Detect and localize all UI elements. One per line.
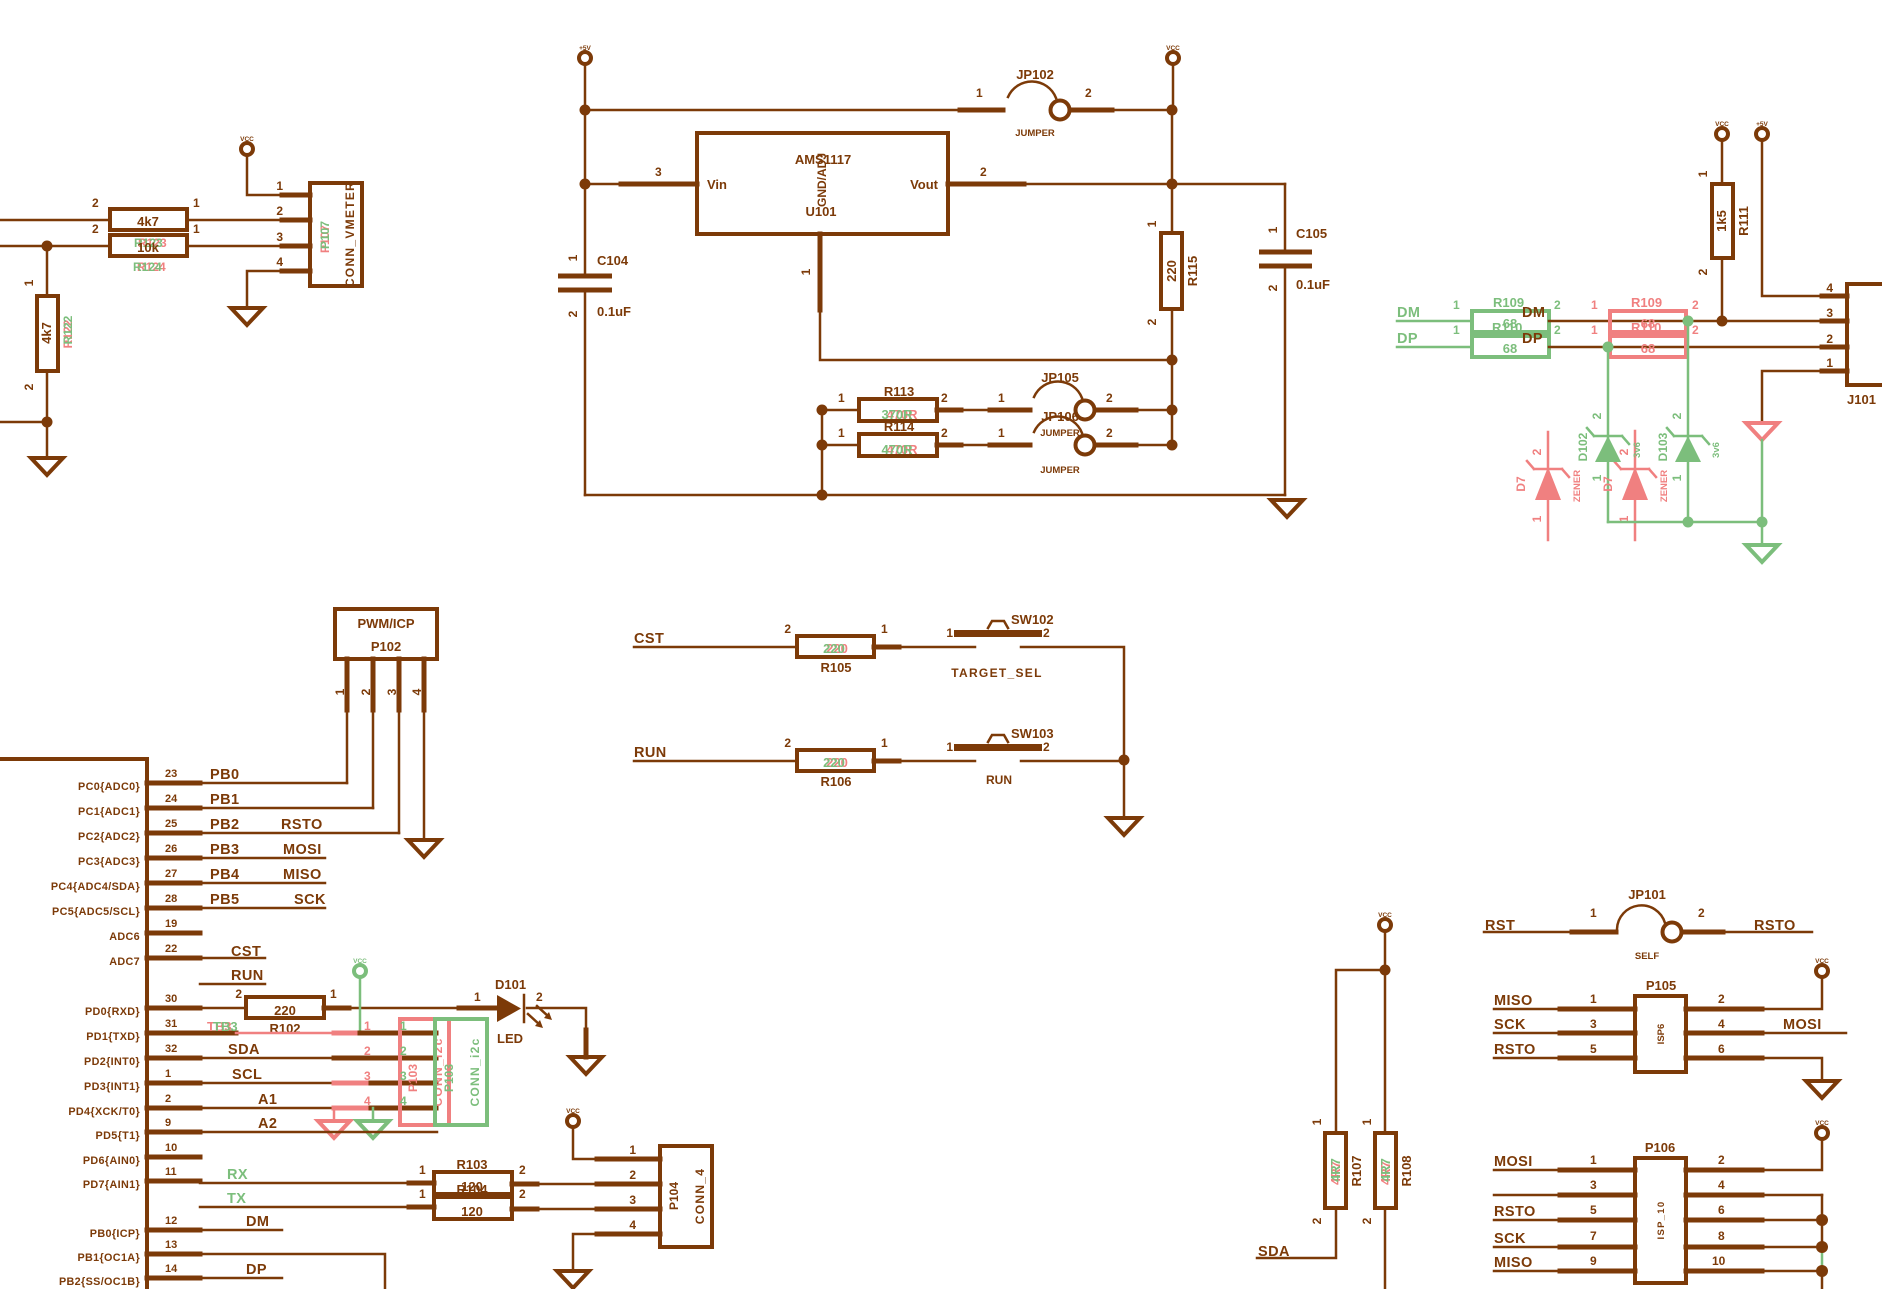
svg-text:7: 7 [1590,1229,1597,1243]
wire net to R123 from left [0,219,110,222]
zener diode D102 green [1576,412,1643,481]
jumper JP105 [998,370,1113,439]
ground symbol P107 [231,308,263,325]
svg-text:P102: P102 [371,639,401,654]
svg-text:P103: P103 [406,1064,420,1092]
wire DM to J101 pin3 [1549,320,1847,323]
svg-text:2: 2 [276,204,283,218]
svg-text:RSTO: RSTO [1494,1204,1536,1220]
wire pin13 down [200,1254,385,1289]
svg-text:ADC6: ADC6 [109,931,140,943]
svg-text:ZENER: ZENER [1659,470,1670,502]
junction pin6 [1816,1214,1828,1226]
svg-text:1: 1 [566,254,580,261]
svg-text:R122: R122 [61,315,75,344]
svg-text:2: 2 [1696,268,1710,275]
resistor R115 220 vertical [1145,184,1200,445]
wire P107 pin4 to ground [282,269,310,274]
svg-text:DM: DM [1522,305,1545,321]
wire VCC down [1384,931,1387,1133]
connector P103 pink CONN_i2c [364,1019,449,1125]
green junction on DM [1683,316,1694,327]
svg-text:MISO: MISO [1494,1255,1533,1271]
svg-text:PC2{ADC2}: PC2{ADC2} [78,831,140,843]
junction pin8 [1816,1241,1828,1253]
svg-text:LED: LED [497,1031,523,1046]
junction R107 top [1380,965,1391,976]
pin 28 stub [147,906,200,911]
svg-text:2: 2 [1718,1153,1725,1167]
svg-text:3: 3 [655,165,662,179]
wire R113 to JP105 [937,409,1030,412]
svg-text:11: 11 [165,1166,177,1178]
svg-text:1: 1 [1590,992,1597,1006]
wire from left to gnd junction [0,421,47,424]
svg-text:0.1uF: 0.1uF [597,304,631,319]
svg-text:D102: D102 [1576,432,1590,461]
svg-text:CONN_4: CONN_4 [693,1168,707,1224]
wire R114 to JP106 [937,444,1030,447]
svg-text:PC4{ADC4/SDA}: PC4{ADC4/SDA} [51,881,141,893]
junction JP106 right [1167,440,1178,451]
svg-text:5: 5 [1590,1203,1597,1217]
svg-text:120: 120 [461,1204,483,1219]
ground symbol switches [1108,818,1140,835]
wire SW102 to junction [1021,647,1124,760]
svg-text:SCK: SCK [1494,1231,1526,1247]
green wire gnd extension [1761,440,1764,522]
svg-text:2: 2 [784,622,791,636]
pin 30 stub [147,1006,200,1011]
green junction right [1757,517,1768,528]
svg-text:1: 1 [193,222,200,236]
svg-text:4: 4 [1826,281,1833,295]
svg-text:PWM/ICP: PWM/ICP [357,616,414,631]
svg-text:1: 1 [419,1187,426,1201]
power VCC symbol P105 [1815,958,1829,977]
capacitor C104 [558,184,631,495]
svg-text:25: 25 [165,818,177,830]
svg-text:DP: DP [1522,331,1543,347]
svg-text:PD2{INT0}: PD2{INT0} [84,1056,140,1068]
pin 25 stub [147,831,200,836]
pin 10 stub [147,1155,200,1160]
wire pink stub pin1 old conn [334,1031,399,1036]
green junction on DP [1603,342,1614,353]
jumper JP102 [976,67,1092,139]
svg-text:R104: R104 [456,1182,488,1197]
power VCC symbol R111 [1715,121,1729,140]
wire R111 to DM line [1721,258,1724,321]
svg-text:4: 4 [1718,1017,1725,1031]
wire Vout to right [948,183,1285,186]
right column green segment [1821,1247,1824,1271]
svg-text:3: 3 [1590,1017,1597,1031]
svg-text:2: 2 [364,1044,371,1058]
svg-text:PD6{AIN0}: PD6{AIN0} [83,1155,141,1167]
wire SDA to R107 [1257,1208,1336,1258]
ground symbol pink old [1746,423,1778,440]
resistor R110 pink [1591,320,1699,357]
IC U100 microcontroller box [0,759,147,1289]
green wire to ground [1761,522,1764,545]
svg-text:27: 27 [165,868,177,880]
svg-text:470R: 470R [881,442,913,457]
wire P102 pin2 drop [372,659,375,808]
power VCC symbol P104 [566,1108,580,1127]
wire P106 pin3 [1494,1194,1635,1197]
svg-text:R109: R109 [1493,295,1524,310]
svg-text:2: 2 [165,1093,171,1105]
svg-text:R124: R124 [133,260,162,274]
svg-text:MOSI: MOSI [1494,1154,1533,1170]
svg-text:SW102: SW102 [1011,612,1054,627]
svg-text:ISP6: ISP6 [1656,1024,1667,1045]
svg-text:R113: R113 [884,384,914,399]
svg-text:1: 1 [881,622,888,636]
green wire VCC down [359,977,362,1033]
svg-text:MISO: MISO [283,867,322,883]
voltage regulator U101 AMS1117 [655,133,987,275]
svg-text:2: 2 [941,391,948,405]
common wire overlap pin1 [360,1031,436,1036]
svg-text:2: 2 [1145,318,1159,325]
pin 1 stub [147,1081,200,1086]
wire VCC to P104 pin1 [573,1127,660,1159]
wire left column down to gnd rail [821,410,824,495]
svg-text:SELF: SELF [1635,951,1659,962]
wire R104 to P104 pin3 [512,1208,597,1211]
svg-text:14: 14 [165,1263,178,1275]
svg-text:2: 2 [92,222,99,236]
junction JP102/VCC [1167,105,1178,116]
svg-text:10: 10 [165,1142,177,1154]
svg-text:A1: A1 [258,1092,277,1108]
svg-text:2: 2 [22,383,36,390]
svg-text:PB2{SS/OC1B}: PB2{SS/OC1B} [59,1276,140,1288]
wire JP102 pin2 to VCC line [1070,109,1172,112]
svg-text:R103: R103 [456,1157,487,1172]
svg-text:PD7{AIN1}: PD7{AIN1} [83,1179,141,1191]
svg-text:DM: DM [1397,305,1420,321]
svg-text:1: 1 [838,426,845,440]
P104 pin4 stub and gnd [597,1232,660,1237]
wire LED to gnd [527,1008,586,1057]
wire VCC to R111 [1721,140,1724,184]
svg-text:4: 4 [364,1094,371,1108]
wire R108 bottom [1384,1208,1387,1289]
svg-text:PB5: PB5 [210,892,239,908]
svg-text:220: 220 [823,641,845,656]
resistor R114 [822,419,948,457]
power VCC symbol output [1166,45,1180,64]
svg-text:2: 2 [519,1187,526,1201]
svg-text:MISO: MISO [1494,993,1533,1009]
svg-text:26: 26 [165,843,177,855]
connector P105 ISP6 [1590,978,1725,1072]
svg-text:1: 1 [1310,1118,1324,1125]
svg-text:2: 2 [1554,298,1561,312]
pin 9 stub [147,1130,200,1135]
svg-text:2: 2 [1360,1217,1374,1224]
wire P105 pin6 to gnd [1686,1058,1822,1081]
junction JP105 row left [817,405,828,416]
svg-text:ADC7: ADC7 [109,956,140,968]
resistor R113 [822,384,948,422]
zener diode D7 pink old left [1514,432,1583,540]
svg-text:6: 6 [1718,1042,1725,1056]
svg-text:4k7: 4k7 [137,214,159,229]
svg-text:RSTO: RSTO [1494,1042,1536,1058]
jumper JP106 [998,409,1113,476]
wire VCC down to R115 [1172,64,1173,184]
svg-text:SDA: SDA [228,1042,260,1058]
svg-text:2: 2 [1692,298,1699,312]
junction at Vin row [580,179,591,190]
svg-text:9: 9 [165,1117,171,1129]
svg-text:3: 3 [629,1193,636,1207]
svg-text:PD0{RXD}: PD0{RXD} [85,1006,140,1018]
LED D101 [474,977,552,1046]
svg-text:4: 4 [276,255,283,269]
svg-text:4: 4 [400,1094,407,1108]
svg-text:P107: P107 [318,221,332,249]
junction ADJ line [1167,355,1178,366]
svg-text:1: 1 [1826,356,1833,370]
svg-text:JUMPER: JUMPER [1040,465,1080,476]
power +5V symbol input [579,45,592,64]
svg-text:1: 1 [1266,226,1280,233]
wire P102 pin1 drop [346,659,349,783]
svg-text:2: 2 [1106,391,1113,405]
svg-text:28: 28 [165,893,177,905]
svg-text:PB4: PB4 [210,867,239,883]
svg-text:PB1: PB1 [210,792,239,808]
wire P106 pin10 [1686,1270,1822,1273]
pin 31 stub [147,1031,236,1036]
wire SW103 to junction [1021,760,1124,763]
svg-text:2: 2 [629,1168,636,1182]
svg-text:220: 220 [823,755,845,770]
svg-text:R106: R106 [820,774,851,789]
power VCC symbol P107 [240,136,254,155]
connector P106 ISP_10 [1590,1140,1726,1283]
svg-text:5: 5 [1590,1042,1597,1056]
ground symbol pink i2c [318,1121,350,1138]
resistor R109 green [1453,295,1561,332]
P104 pin3 stub [597,1207,660,1212]
svg-text:1: 1 [1590,906,1597,920]
svg-text:1: 1 [276,179,283,193]
ground symbol LED [570,1057,602,1074]
svg-text:2: 2 [566,310,580,317]
svg-text:2: 2 [1617,448,1631,455]
connector P103 green CONN_i2c [400,1019,487,1125]
wire green DP [1397,346,1472,349]
wire junction to gnd [1123,760,1126,818]
svg-text:2: 2 [1310,1217,1324,1224]
wire R105 to SW102 [874,646,975,649]
svg-text:2: 2 [1554,323,1561,337]
svg-text:Vin: Vin [707,177,727,192]
svg-text:PC0{ADC0}: PC0{ADC0} [78,781,140,793]
resistor R109 pink [1591,295,1699,332]
junction pin10 [1816,1265,1828,1277]
svg-text:TB3: TB3 [213,1019,238,1034]
resistor R102 220 [235,987,337,1036]
svg-text:1: 1 [946,740,953,754]
svg-text:4k7: 4k7 [39,322,54,344]
svg-text:PB0: PB0 [210,767,239,783]
wire P106 pin2 to VCC [1686,1139,1822,1170]
svg-text:1: 1 [1696,170,1710,177]
svg-text:ISP_10: ISP_10 [1656,1201,1667,1240]
green wire down to D102 [1607,347,1610,522]
pin 12 stub [147,1228,200,1233]
power +5V symbol J101 [1756,121,1769,140]
svg-text:4R7: 4R7 [1328,1158,1343,1182]
wire net to R124 from left [0,245,110,248]
svg-text:J101: J101 [1847,392,1876,407]
svg-text:1: 1 [330,987,337,1001]
svg-text:CONN_i2c: CONN_i2c [468,1037,482,1106]
junction at R124 input [42,241,53,252]
svg-text:R110: R110 [1492,320,1522,335]
resistor R104 120 [419,1182,526,1219]
svg-text:TX: TX [227,1191,246,1207]
pin 11 stub [147,1179,200,1184]
P104 pin2 stub [597,1182,660,1187]
svg-text:1: 1 [998,391,1005,405]
svg-text:9: 9 [1590,1254,1597,1268]
zener diode D7 pink old right [1601,431,1670,540]
svg-text:SCK: SCK [1494,1017,1526,1033]
svg-text:1: 1 [881,736,888,750]
connector P107 CONN_VMETER [276,179,362,287]
pin 2 stub [147,1106,200,1111]
svg-text:3: 3 [1826,306,1833,320]
pin 32 stub [147,1056,200,1061]
svg-text:31: 31 [165,1018,177,1030]
svg-text:DM: DM [246,1214,269,1230]
svg-text:PC3{ADC3}: PC3{ADC3} [78,856,140,868]
svg-text:2: 2 [400,1044,407,1058]
resistor R107 4k7 vertical [1310,1118,1364,1224]
wire DP to J101 pin2 [1549,346,1847,349]
svg-text:1: 1 [946,626,953,640]
connector P104 CONN_4 [629,1143,712,1247]
pink wire down to old gnd [333,1108,336,1121]
svg-text:PD3{INT1}: PD3{INT1} [84,1081,140,1093]
svg-text:D101: D101 [495,977,526,992]
svg-text:23: 23 [165,768,177,780]
pin 23 stub [147,781,200,786]
pin 14 stub [147,1276,200,1281]
junction Vout/R115 [1167,179,1178,190]
junction JP105 right [1167,405,1178,416]
svg-text:68: 68 [1641,341,1655,356]
zener diode D103 green [1656,412,1722,481]
resistor R108 4k7 vertical [1360,1118,1414,1224]
svg-text:U101: U101 [805,204,836,219]
resistor R110 green [1453,320,1561,357]
pin 13 stub [147,1252,200,1257]
wire Vin [585,183,697,186]
wire R106 to SW103 [874,760,975,763]
pin 22 stub [147,956,200,961]
svg-text:DP: DP [246,1262,267,1278]
svg-text:3: 3 [276,230,283,244]
svg-text:10k: 10k [137,240,159,255]
ground symbol green [1746,545,1778,562]
green junction D103 [1683,517,1694,528]
svg-text:2: 2 [1266,284,1280,291]
switch SW102 [946,612,1053,680]
wire JP105 pin2 to right column [1095,409,1172,412]
jumper JP101 [1590,887,1705,962]
resistor R124 10k [92,222,200,274]
right column brown wire [1821,1195,1824,1247]
svg-text:C104: C104 [597,253,629,268]
junction switches [1119,755,1130,766]
svg-text:3v6: 3v6 [1632,442,1643,458]
wire JP106 pin2 to right column [1095,444,1172,447]
svg-text:1: 1 [1590,1153,1597,1167]
wire P102 pin3 drop [398,659,401,833]
svg-text:RUN: RUN [231,968,264,984]
svg-text:MOSI: MOSI [1783,1017,1822,1033]
svg-text:1: 1 [1145,220,1159,227]
svg-text:220: 220 [1164,260,1179,282]
svg-text:R105: R105 [820,660,851,675]
wire R123 to P107 pin2 [187,219,310,222]
power VCC symbol P106 [1815,1120,1829,1139]
svg-text:PB3: PB3 [210,842,239,858]
wire stub to ground [46,422,49,458]
wire R124 to P107 pin3 [187,245,310,248]
svg-text:2: 2 [1670,412,1684,419]
green wire to conn pin1 [360,1031,434,1036]
junction JP106 row left [817,440,828,451]
resistor R105 220 [784,622,888,675]
svg-text:2: 2 [519,1163,526,1177]
power VCC green symbol i2c [353,958,367,977]
svg-text:R109: R109 [1631,295,1662,310]
svg-text:R107: R107 [1349,1155,1364,1186]
svg-text:CST: CST [634,631,664,647]
wire pin31 pink [236,1032,360,1035]
svg-text:4R7: 4R7 [1378,1158,1393,1182]
svg-text:RSTO: RSTO [281,817,323,833]
svg-text:1: 1 [364,1019,371,1033]
resistor R111 1k5 vertical [1696,170,1751,275]
svg-text:2: 2 [235,987,242,1001]
connector J101 [1826,281,1882,407]
wire +5V to J101 pin4 [1762,140,1847,296]
junction at gnd rail [817,490,828,501]
wire R103 to P104 pin2 [512,1183,597,1186]
svg-text:1: 1 [998,426,1005,440]
svg-text:1: 1 [193,196,200,210]
wire junction down to R122 [46,246,49,296]
svg-text:13: 13 [165,1239,177,1251]
svg-text:JP102: JP102 [1016,67,1054,82]
green wire down to D103 [1687,321,1690,522]
svg-text:PD4{XCK/T0}: PD4{XCK/T0} [68,1106,140,1118]
ground symbol green i2c [357,1121,389,1138]
svg-text:6: 6 [1718,1203,1725,1217]
ground symbol gnd rail [1271,500,1303,517]
